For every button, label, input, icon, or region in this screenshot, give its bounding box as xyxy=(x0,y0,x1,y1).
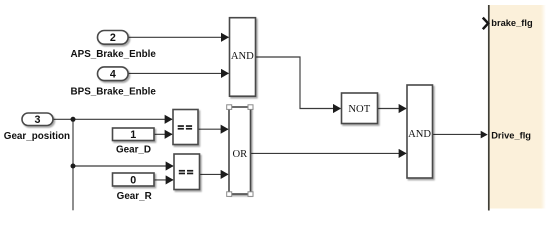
inport 3 (Gear_position) xyxy=(22,113,53,126)
wire NOT -> AND2 xyxy=(378,108,407,110)
svg-text:Gear_R: Gear_R xyxy=(117,191,152,202)
constant Gear_R value 0 xyxy=(113,173,155,186)
inport 4 (BPS_Brake_Enble) xyxy=(98,67,129,81)
relational operator eq2 == xyxy=(174,154,200,190)
svg-text:4: 4 xyxy=(110,69,116,81)
wire AND1 -> NOT xyxy=(256,57,341,109)
wire branch down from node A xyxy=(72,119,74,210)
wire oval3 -> eq1 xyxy=(53,118,172,120)
logical operator NOT xyxy=(342,93,378,124)
svg-text:BPS_Brake_Enble: BPS_Brake_Enble xyxy=(71,86,157,97)
logical operator AND U1 xyxy=(230,18,256,97)
relational operator eq1 == xyxy=(173,110,198,145)
svg-text:APS_Brake_Enble: APS_Brake_Enble xyxy=(71,49,157,60)
port brake_flg (unconnected chevron) xyxy=(483,18,488,30)
svg-text:3: 3 xyxy=(35,114,41,126)
logical operator OR xyxy=(229,107,251,194)
svg-text:OR: OR xyxy=(233,149,249,160)
constant Gear_D value 1 xyxy=(113,128,155,141)
svg-text:NOT: NOT xyxy=(348,104,370,115)
subsystem left border xyxy=(488,5,490,211)
svg-text:AND: AND xyxy=(408,129,431,140)
svg-text:AND: AND xyxy=(231,51,254,62)
wire const Gear_R -> eq2 xyxy=(154,179,173,181)
svg-text:brake_flg: brake_flg xyxy=(491,18,533,28)
svg-text:Drive_flg: Drive_flg xyxy=(491,130,531,140)
arrowhead Drive_flg xyxy=(481,131,488,139)
node A junction dot xyxy=(71,117,76,122)
selection handle OR top-left xyxy=(227,105,232,110)
wire const Gear_D -> eq1 xyxy=(154,133,172,135)
logical operator AND U2 xyxy=(407,85,433,178)
wire OR -> AND2 xyxy=(251,152,407,154)
svg-text:Gear_D: Gear_D xyxy=(116,144,151,155)
svg-text:2: 2 xyxy=(110,32,116,44)
selection handle OR bottom-left xyxy=(227,192,232,197)
svg-text:1: 1 xyxy=(130,129,136,141)
wire eq1 -> OR xyxy=(198,128,228,130)
subsystem block (beige, partially visible) xyxy=(489,5,541,209)
wire AND2 -> Drive_flg xyxy=(433,133,481,135)
wire oval2 -> AND1 xyxy=(128,36,229,38)
inport 2 (APS_Brake_Enble) xyxy=(98,31,129,45)
wire branch -> eq2 xyxy=(73,165,173,167)
selection handle OR bottom-right xyxy=(248,192,253,197)
selection handle OR top-right xyxy=(248,105,253,110)
wire oval4 -> AND1 xyxy=(128,72,229,74)
svg-text:Gear_position: Gear_position xyxy=(4,131,70,142)
node B junction dot xyxy=(71,164,76,169)
wire eq2 -> OR xyxy=(200,173,229,175)
svg-text:0: 0 xyxy=(130,174,136,186)
